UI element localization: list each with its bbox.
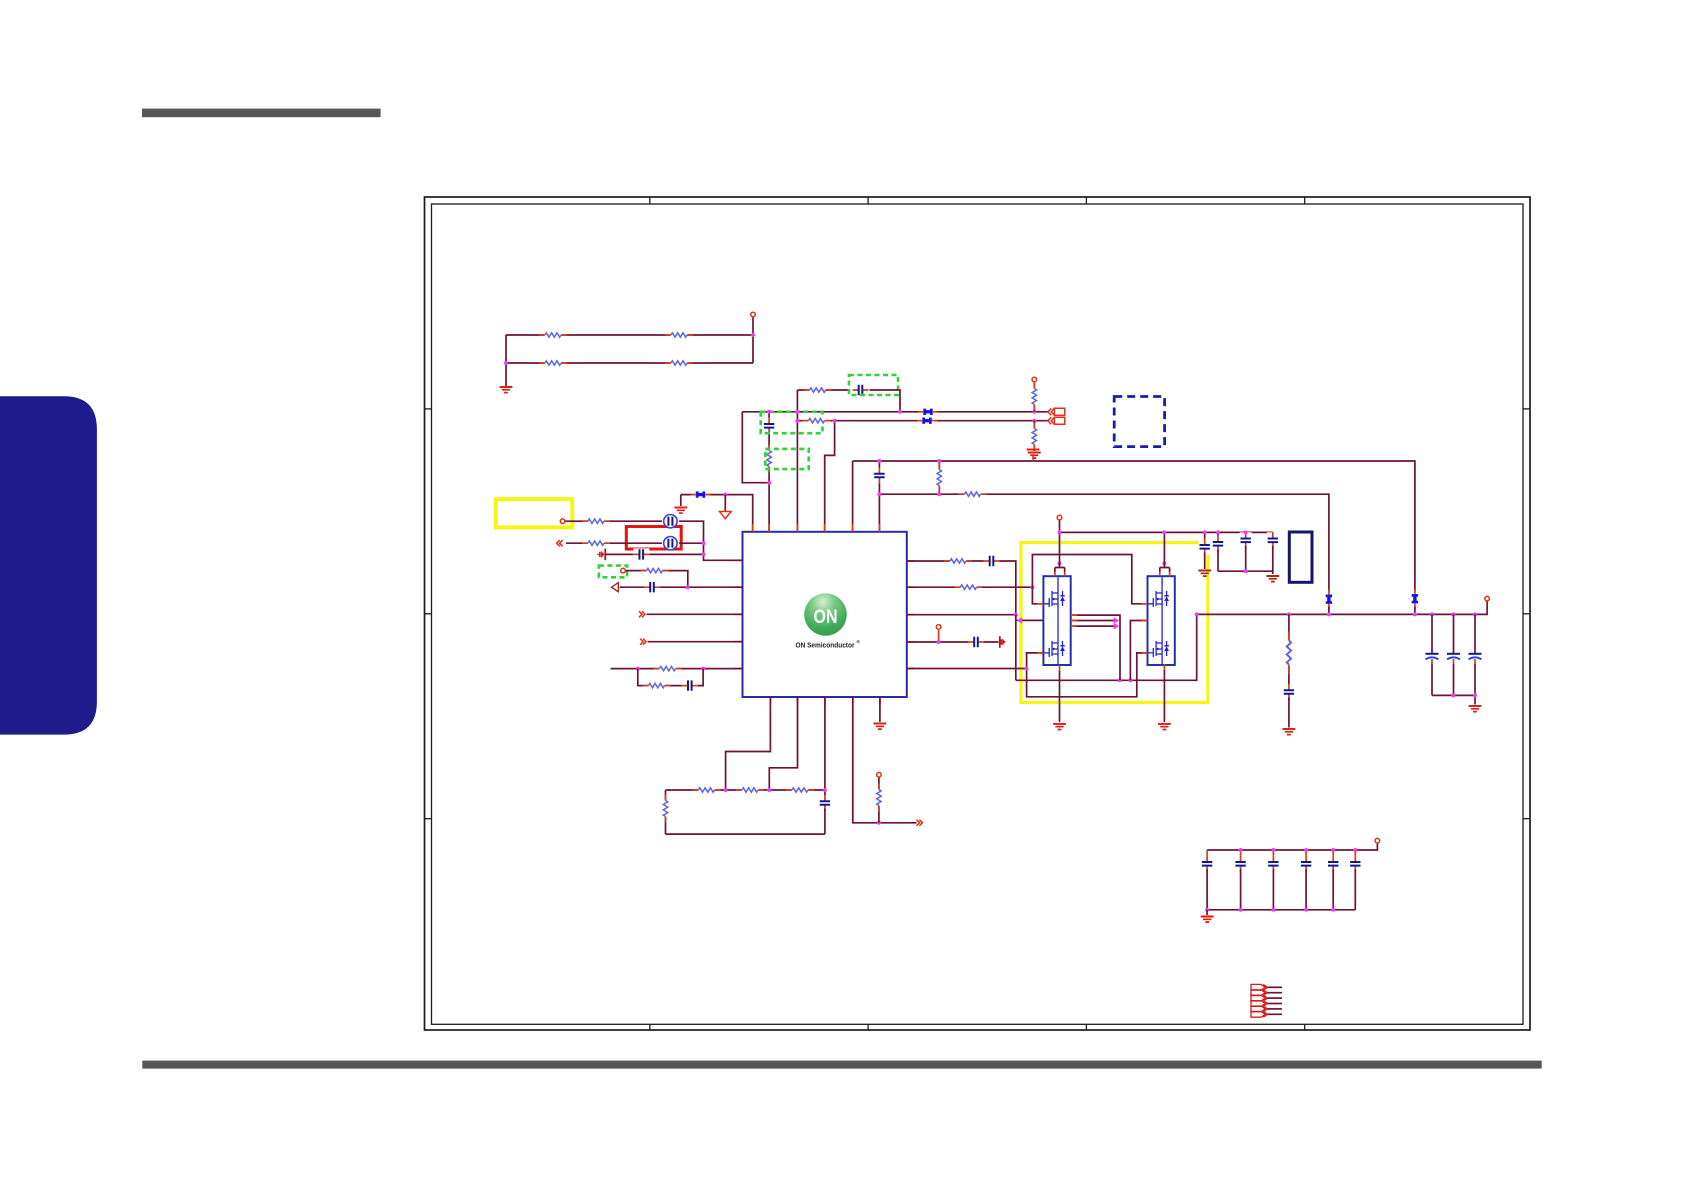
node junction [1287,612,1291,616]
ferrite bead FB1 [918,407,938,416]
IC pin stub left [735,613,743,615]
ground GND4 on net [1027,450,1040,456]
connector pin wire [1268,1013,1283,1015]
capacitor C5 [644,581,660,593]
node junction [877,821,881,825]
connector pin wire [1268,1008,1283,1010]
border zone tick (bottom) [649,1024,651,1030]
transistor Q1 dual MOSFET package [1043,576,1070,665]
IC pin stub top [852,524,854,532]
ground GND10 [1469,706,1482,712]
wire EN [647,613,743,615]
node junction [1353,848,1357,852]
wire feedback in [620,586,743,588]
wire DRVL [907,641,999,643]
terminal T2 [1032,377,1037,382]
wire gnd stub [1206,910,1208,915]
wire vertical from IC pin [852,461,854,532]
wire [679,521,742,560]
transistor Q2 dual MOSFET package [1148,576,1175,665]
wire SW to pkg1 [1016,619,1044,621]
border zone tick (left) [425,408,432,410]
wire right vertical [752,335,754,363]
wire BST [907,561,1016,615]
resistor R1 [539,331,567,339]
ground GND2 [1028,453,1041,459]
node junction [1331,908,1335,912]
bottom gray bar [142,1061,1541,1069]
border zone tick (left) [425,613,432,615]
resistor R11 [959,490,987,498]
capacitor C (bank) [1305,850,1307,858]
wire sense filter [605,553,703,555]
wire enable [626,571,688,588]
wire ILIM chain [853,697,917,823]
node junction [1128,678,1132,682]
node junction [701,667,705,671]
resistor R4 [665,359,693,367]
resistor R13 [582,539,610,547]
green highlight box around C1 [761,412,823,433]
IC U1 controller body [743,532,907,697]
wire bead tails [1329,607,1415,615]
terminal T4 [621,568,626,573]
border zone tick (top) [867,197,869,204]
capacitor C (output bulk) [1431,614,1433,653]
resistor R20 [693,786,721,794]
node junction [1452,612,1456,616]
node junction [898,410,902,414]
green highlight box around C2 [849,375,898,395]
wire cap branch vertical [878,461,880,532]
wire TON network [611,668,743,670]
node junction [795,419,799,423]
wire VIN drop to Q1 [1059,521,1061,568]
wire cap bank top bus [1207,844,1377,851]
node junction [702,552,706,556]
open triangle flag [612,583,619,592]
node junction [1118,678,1122,682]
wire gate drive high net [1032,555,1147,604]
ground GND12 [1201,917,1214,923]
capacitor C (bank) [1206,850,1208,858]
node junction [1239,908,1243,912]
wire pin step 2 [769,697,797,790]
capacitor C11 [1272,532,1274,535]
wire cap bank bottom bus [1207,909,1355,911]
ON Semiconductor logo [0,0,1,1]
IC pin stub right [907,614,915,616]
wire SW sense [907,614,1016,616]
capacitor C4 [633,548,649,560]
wire Q2 drain drop [1163,532,1165,567]
wire DRVH [907,586,1033,588]
IC pin stub right [907,586,915,588]
node junction [1413,612,1417,616]
wire PGND sense [907,668,1027,670]
IC pin stub right [907,641,915,643]
capacitor C7 [984,555,1000,567]
IC pin stub top [768,524,770,532]
capacitor C2 [853,384,869,396]
chevron output [917,820,923,826]
wire Q1 source to ground [1059,665,1061,671]
wire [870,390,901,412]
wire ground stub [680,495,682,506]
capacitor C1 [763,418,775,434]
IC pin stub left [735,641,743,643]
wire top rail [506,334,753,336]
wire return rail [666,833,825,835]
wire left vertical [505,335,507,386]
node junction [1430,612,1434,616]
node junction [1271,908,1275,912]
node junction [877,459,881,463]
ferrite bead FB2 [917,416,937,425]
IC pin stub bottom [852,697,854,705]
connector J1 [1251,984,1268,1017]
capacitor C6 [682,680,698,692]
pin stubs pkg1 right [1071,615,1077,626]
pin stub gate high [1037,603,1043,605]
node junction [795,410,799,414]
wire net LX feedback [879,494,1329,591]
capacitor C (bank) [1332,850,1334,858]
wire AGND pin [879,697,881,722]
wire VIN rail [1060,531,1273,533]
border zone tick (bottom) [867,1024,869,1030]
ground GND7 [1198,571,1211,577]
node junction [1032,419,1036,423]
IC pin stub bottom [797,697,799,705]
node junction [1304,908,1308,912]
ground GND6 [1158,724,1171,730]
node junction [1058,530,1062,534]
ground GND8 [1266,576,1279,582]
wire step branch [825,421,835,532]
node junction [1030,585,1034,589]
capacitor C (bank) [1272,850,1274,858]
yellow highlight box (input) [496,499,573,527]
chevron input CS- [557,540,563,546]
wire current sense + [566,520,663,522]
node junction [1025,667,1029,671]
schematic sheet inner border [432,204,1524,1024]
capacitor C10 [1245,532,1247,535]
magenta arrow [1114,617,1120,624]
resistor R2 [665,331,693,339]
wire long net (bootstrap) [853,461,1415,592]
green dashed box (enable) [599,566,627,578]
node junction [1162,562,1166,566]
node junction [702,541,706,545]
node junction [504,361,508,365]
terminal T8 [1375,838,1380,843]
wire phase pin 2 [1071,620,1117,622]
resistor R3 [539,359,567,367]
pin stub [1142,620,1148,622]
red highlight box around L1 [626,527,681,550]
connector pin wire [1268,997,1283,999]
terminal T3 [560,519,565,524]
capacitor C (bank) [1354,850,1356,858]
wire pin straight [824,697,826,797]
capacitor C (bank) [1240,850,1242,858]
IC pin stub left [735,586,743,588]
ground GND5 [1053,724,1066,730]
wire divider row [666,789,825,791]
wire net line2 [797,420,1048,422]
terminal T1 [751,312,756,317]
border zone tick (top) [1304,197,1306,204]
resistor R21 [736,786,764,794]
wire cap return bus [1218,571,1273,574]
node junction [937,459,941,463]
node junction [1473,612,1477,616]
wire gate1 branch [1032,587,1043,604]
magenta arrow [1017,617,1023,624]
resistor R15 [654,665,682,673]
pin stubs top [1160,572,1170,576]
wire gate low net [1027,653,1044,669]
connector pin wire [1268,1003,1283,1005]
resistor R14 [641,567,669,575]
node junction [1014,613,1018,617]
resistor R12 [582,517,610,525]
ferrite bead FB3 [691,490,711,499]
resistor R5 [765,445,773,473]
ground GND11 [874,724,887,730]
wire stub [938,629,940,642]
IC pin stub left [735,559,743,561]
drain bracket [1160,568,1170,573]
node junction [1195,612,1199,616]
drain bracket [1055,568,1065,573]
capacitor C9 [1217,532,1219,538]
resistor R6 [804,386,832,394]
resistor R10 [938,461,940,494]
border zone tick (top) [649,197,651,204]
yellow highlight box (power stage) [1021,543,1208,703]
border zone tick (bottom) [1085,1024,1087,1030]
wire output cap return bus [1432,695,1475,704]
off-page connector P2 [1048,417,1065,424]
resistor R23 left leg [665,790,667,834]
resistor R22 [786,786,814,794]
IC pin stub top [796,524,798,532]
node junction [723,493,727,497]
connector pin wire [1268,992,1283,994]
coupled inductor winding L1b [664,537,677,550]
resistor R16 [643,682,671,690]
resistor R17 [944,557,972,565]
capacitor C (output bulk) [1453,614,1455,653]
node junction [1331,848,1335,852]
transistor Q2a (upper FET) [1153,591,1169,607]
node junction [1162,530,1166,534]
node junction [1327,612,1331,616]
wire pin step 1 [726,697,771,790]
capacitor C14 [968,636,984,648]
ferrite bead FB5 [1410,589,1419,609]
wire net line1 [742,411,1048,413]
wire SW bus [1016,614,1197,680]
border zone tick (bottom) [1304,1024,1306,1030]
IC pin stub bottom [769,697,771,705]
capacitor C (output bulk) [1474,614,1476,653]
magenta arrow [1114,623,1120,630]
node junction [1058,562,1062,566]
ferrite bead FB4 [1324,589,1333,609]
wire Q2 source to ground [1163,664,1165,670]
resistor R9 pull-down [1033,421,1035,451]
wire [679,542,703,544]
IC pin stub bottom [824,697,826,705]
border zone tick (top) [1085,197,1087,204]
resistor R8 pull-up [1033,383,1035,412]
node junction [877,492,881,496]
node junction [686,585,690,589]
wire VCC line [681,495,753,532]
wire phase pin 3 [1071,625,1117,627]
top gray bar [142,109,381,118]
terminal T5 [1057,515,1062,520]
node junction [751,333,755,337]
transistor Q1a (upper FET) [1049,591,1065,607]
power flag triangle [724,495,726,512]
ground GND9 [1283,729,1296,735]
border zone tick (left) [425,818,432,820]
wire SKIP [648,641,743,643]
transistor Q2b (lower FET) [1153,641,1169,657]
node junction [767,481,771,485]
IC pin stub left [735,668,743,670]
border zone tick (right) [1523,408,1530,410]
IC pin stub top [824,524,826,532]
wire pkg2 phase to SW [1130,621,1147,681]
pin stub gate low [1142,652,1148,654]
green highlight box around R5 [765,449,808,469]
off-page connector P1 [1048,408,1065,415]
wire output rail [1197,602,1487,615]
resistor R24 [878,778,880,823]
chassis symbol (sense gnd) [597,549,605,561]
pin stub gate low [1037,652,1043,654]
coupled inductor winding L1a [664,515,677,528]
capacitor C12 [1283,684,1295,700]
left blue tab [0,396,97,734]
node junction [833,419,837,423]
terminal T7 [877,772,882,777]
node junction [1304,848,1308,852]
IC pin stub top [752,524,754,532]
node junction [1271,848,1275,852]
wire loop left vertical [742,412,769,483]
capacitor C3 [873,468,885,484]
schematic sheet outer border [425,197,1531,1030]
node junction [937,492,941,496]
ground GND3 [674,508,687,514]
IC pin stub right [907,668,915,670]
ground GND1 [500,387,513,393]
chevron input EN [639,611,645,617]
IC pin stub bottom [879,697,881,705]
node junction [1239,848,1243,852]
wire compensation branch [797,389,849,391]
node junction [636,667,640,671]
resistor R7 [803,417,831,425]
wire phase pin [1071,615,1120,680]
border zone tick (right) [1523,613,1530,615]
wire [752,317,754,335]
connector pin wire [1268,986,1283,988]
wire gate low link [1027,653,1148,697]
terminal T6 [1485,596,1490,601]
resistor R18 [955,583,983,591]
capacitor C8 [1204,532,1206,541]
node junction [1032,410,1036,414]
capacitor C13 [819,795,831,811]
node junction [1205,908,1209,912]
IC pin stub right [907,560,915,562]
chevron input SKIP [640,639,646,645]
IC pin stub top [878,524,880,532]
pin stub gate high [1142,603,1148,605]
inductor block L2 [1289,532,1312,582]
pin stubs top [1055,572,1065,576]
wire bottom rail [506,362,753,364]
wire vertical to IC pin [796,390,798,532]
svg-text:ON: ON [814,606,838,628]
capacitor C1 branch vertical [768,412,770,532]
terminal T9 [936,625,941,630]
border zone tick (right) [1523,818,1530,820]
wire parallel branch [638,669,703,686]
node junction [767,410,771,414]
svg-text:ON Semiconductor: ON Semiconductor [796,641,855,650]
resistor R19 divider [1288,614,1290,688]
transistor Q1b (lower FET) [1049,641,1065,657]
wire SW bus vertical [1015,615,1017,681]
wire current sense - [566,542,662,544]
node junction [937,640,941,644]
blue dashed box (spare part) [1114,397,1164,447]
chassis symbol right [1000,636,1006,648]
